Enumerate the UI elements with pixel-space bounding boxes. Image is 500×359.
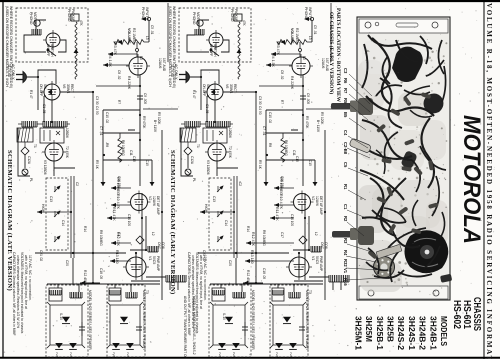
IF transformer T2 (late)	[40, 128, 64, 143]
svg-text:3H25B-1: 3H25B-1	[375, 316, 385, 350]
cathode resistor arrow R12 (early)	[246, 242, 294, 244]
svg-text:R11 47K: R11 47K	[275, 207, 279, 221]
svg-text:with a VTVM, no signal input,: with a VTVM, no signal input, line at	[24, 255, 28, 309]
svg-text:R4 220K: R4 220K	[127, 76, 131, 90]
svg-text:T2 455K: T2 455K	[228, 146, 232, 159]
svg-text:3H25M-1: 3H25M-1	[353, 316, 363, 350]
capacitor bars (late)	[79, 326, 85, 328]
det/avc tube V2 (late)	[131, 194, 148, 211]
motor coil L1 (early)	[195, 29, 204, 35]
dashed enclosure: output model 3H25 (early)	[209, 285, 251, 357]
field coil (late)	[70, 292, 82, 298]
svg-text:V3 12BD6: V3 12BD6	[43, 160, 47, 175]
photo apron slot	[396, 23, 418, 27]
rectifier SE6 pair (early)	[275, 343, 283, 349]
output transformer T3 (early)	[212, 288, 225, 301]
phono motor M1 (late)	[34, 20, 40, 26]
plate load line R4 long (early)	[259, 85, 281, 87]
svg-text:117V 60: 117V 60	[7, 64, 11, 77]
svg-text:PICKUP: PICKUP	[71, 9, 75, 22]
rectifier SE1 (late)	[62, 317, 70, 324]
svg-text:S-10: S-10	[222, 313, 226, 320]
svg-text:47K: 47K	[242, 20, 246, 27]
photo right-edge wires	[442, 66, 446, 102]
svg-text:AC ONLY: AC ONLY	[11, 64, 15, 80]
dashed enclosure: output model 3H24 (early)	[270, 285, 308, 357]
wire: det plate (late)	[131, 193, 160, 281]
dashed enclosure: record changer unit (early)	[179, 8, 251, 62]
svg-text:PARTS LOCATION - BOTTOM VIEW: PARTS LOCATION - BOTTOM VIEW	[335, 8, 341, 103]
svg-text:SWITCH: SWITCH	[50, 44, 54, 57]
svg-text:7+8: 7+8	[69, 352, 73, 357]
svg-text:C10 .02: C10 .02	[105, 112, 109, 123]
svg-text:C18 .05: C18 .05	[262, 268, 266, 279]
svg-text:PHONO: PHONO	[141, 7, 145, 20]
svg-text:12BD6: 12BD6	[65, 128, 69, 138]
photo electrolytic capacitor cylinder	[349, 138, 371, 153]
photo speaker magnet V2 dark mass	[405, 230, 449, 273]
svg-text:L2: L2	[314, 232, 318, 236]
field coil (early)	[233, 292, 245, 298]
wire: jack to volume (late)	[148, 21, 150, 42]
svg-text:V2: V2	[148, 196, 152, 200]
AC plug P1 (late)	[23, 72, 27, 83]
svg-text:T1: T1	[33, 144, 37, 148]
svg-text:R3 47K: R3 47K	[276, 43, 280, 56]
svg-text:R6: R6	[343, 78, 348, 84]
svg-text:AC ONLY: AC ONLY	[174, 64, 178, 80]
svg-text:C16 220: C16 220	[117, 176, 121, 188]
svg-text:OF CHASSIS (EARLY VERSION): OF CHASSIS (EARLY VERSION)	[328, 12, 335, 94]
svg-text:R5: R5	[343, 98, 348, 104]
svg-text:R4 1.5K: R4 1.5K	[271, 54, 275, 68]
svg-text:C14: C14	[61, 220, 65, 226]
svg-text:VOLUME: VOLUME	[290, 28, 294, 44]
svg-text:50C5: 50C5	[315, 256, 319, 264]
RC coupling network box (early)	[266, 99, 315, 186]
svg-text:MODELS: MODELS	[439, 316, 449, 346]
output transformer T4 (late)	[109, 288, 121, 301]
svg-text:C20: C20	[228, 260, 232, 266]
pilot lamp (early)	[185, 169, 191, 175]
svg-text:HS-602: HS-602	[451, 300, 463, 329]
heater chain combs (late)	[22, 121, 37, 127]
oscillator coil L2 (early)	[311, 246, 321, 252]
svg-text:R12 45K: R12 45K	[246, 270, 250, 284]
rectifier tube V6 35W4 (early)	[207, 84, 223, 100]
svg-text:R2: R2	[302, 56, 306, 60]
svg-text:C8 .02: C8 .02	[280, 70, 284, 80]
rectifier SE4 (early)	[283, 317, 291, 324]
svg-text:R1 47: R1 47	[29, 90, 33, 99]
svg-text:PWR AMP: PWR AMP	[319, 256, 323, 271]
svg-text:C14 100: C14 100	[127, 214, 131, 226]
photo coil dark bit	[400, 150, 418, 170]
svg-text:SCHEMATIC DIAGRAM (EARLY VERSI: SCHEMATIC DIAGRAM (EARLY VERSION)	[169, 150, 176, 295]
svg-text:B+ 110V: B+ 110V	[316, 120, 320, 133]
svg-text:T2 455K: T2 455K	[65, 146, 69, 159]
svg-text:C12A: C12A	[190, 156, 194, 165]
photo speckle grain	[387, 74, 389, 76]
capacitor bars 2 (late)	[136, 326, 142, 328]
svg-text:RECT: RECT	[233, 84, 237, 93]
svg-text:117V AC. NC = no connection.: 117V AC. NC = no connection.	[28, 255, 32, 301]
svg-text:R5 1K: R5 1K	[258, 160, 262, 170]
page border left	[2, 1, 4, 358]
svg-text:7+8: 7+8	[275, 352, 279, 357]
svg-text:R12 45K: R12 45K	[83, 270, 87, 284]
svg-text:C11: C11	[129, 150, 133, 156]
divider line right of early version	[330, 3, 332, 62]
grid resistor arrow R3 (late)	[108, 53, 137, 55]
junction (late)	[136, 49, 139, 52]
rule before title column	[483, 0, 485, 359]
wire: detector (early)	[217, 161, 238, 176]
power transformer T1 (late)	[17, 128, 33, 142]
wire: detector (late)	[54, 161, 75, 176]
svg-text:7+8: 7+8	[126, 352, 130, 357]
IF amp tube V4 (late)	[45, 143, 63, 161]
svg-text:PHONO: PHONO	[230, 9, 234, 22]
svg-text:3H25M: 3H25M	[364, 316, 374, 342]
svg-text:MODEL 3H25 SERIES USES SPEAKER: MODEL 3H25 SERIES USES SPEAKER	[251, 290, 255, 350]
svg-text:ON-OFF: ON-OFF	[46, 44, 50, 56]
wire: left rail (late)	[18, 128, 30, 176]
trimmer capacitor C12 (late)	[21, 147, 29, 155]
rectifier SE3 pair (late)	[55, 343, 63, 349]
speaker frame 2 (late)	[107, 302, 143, 348]
AF amp tube V4 (early)	[292, 57, 310, 75]
capacitor bars 2 (early)	[299, 326, 305, 328]
capacitor bars (early)	[242, 326, 248, 328]
svg-text:unless otherwise specified. Re: unless otherwise specified. Resistors 1/…	[16, 255, 20, 328]
phono input jack (early)	[304, 17, 309, 21]
wire: det plate (early)	[294, 193, 323, 281]
output transformer T4 (early)	[272, 288, 284, 301]
speaker frame (early)	[210, 302, 248, 348]
cathode arrow R4 (early)	[266, 64, 292, 66]
svg-text:AND OUTPUT TRANSFORMER PART OF: AND OUTPUT TRANSFORMER PART OF	[183, 296, 187, 359]
svg-text:T3: T3	[308, 290, 312, 294]
scan noise speckle	[131, 244, 132, 245]
power amp tube V1 (early)	[289, 257, 309, 277]
svg-text:1ST AUD: 1ST AUD	[162, 58, 166, 72]
svg-text:12BD6: 12BD6	[228, 128, 232, 138]
svg-text:R2 1MEG: R2 1MEG	[132, 28, 136, 43]
photo front apron holes	[368, 290, 374, 296]
coupling coil (late)	[126, 292, 137, 298]
svg-text:VOLUME R-18, MOST-OFTEN-NEEDED: VOLUME R-18, MOST-OFTEN-NEEDED 1958 RADI…	[485, 3, 493, 359]
cathode arrow R4 (late)	[103, 64, 129, 66]
svg-text:B5: B5	[343, 112, 348, 118]
IF amp tube V4 (early)	[208, 143, 226, 161]
wire: AVC with arrow (late)	[37, 211, 71, 213]
IF transformer T2 (early)	[203, 128, 227, 143]
rectifier SE3 pair (early)	[218, 343, 226, 349]
grid return arrow R10 (early)	[274, 204, 294, 206]
det/avc tube V2 (early)	[294, 194, 311, 211]
dashed enclosure: record changer unit (late)	[16, 8, 88, 62]
svg-text:R2: R2	[139, 56, 143, 60]
divider line between versions	[167, 3, 169, 62]
svg-text:R4: R4	[343, 250, 348, 256]
svg-text:C8 .02: C8 .02	[117, 70, 121, 80]
svg-text:DET AF AMP: DET AF AMP	[156, 196, 160, 215]
diode load arrow R11 (late)	[107, 217, 131, 219]
cap C10 ticks (late)	[128, 130, 135, 133]
B+ rail wire (late)	[161, 130, 163, 300]
svg-text:INPUT: INPUT	[308, 7, 312, 17]
svg-text:C14: C14	[224, 220, 228, 226]
svg-text:V1: V1	[148, 256, 152, 260]
svg-text:DET AF AMP: DET AF AMP	[319, 196, 323, 215]
svg-text:PL: PL	[29, 178, 33, 182]
tube V6 motor switch tube (late)	[46, 33, 60, 47]
photo power transformer dark mass	[392, 47, 423, 82]
svg-text:C3 30: C3 30	[95, 96, 99, 105]
svg-text:R5 470K: R5 470K	[142, 116, 146, 129]
diode load arrow R11 (early)	[270, 217, 294, 219]
svg-text:C17: C17	[280, 232, 284, 238]
volume pot R11 (early)	[217, 186, 223, 192]
svg-text:R5 470K: R5 470K	[305, 116, 309, 129]
shielded cable (early)	[233, 176, 235, 258]
svg-text:R8: R8	[268, 143, 272, 147]
svg-text:MODEL 3H25 SERIES USES SPEAKER: MODEL 3H25 SERIES USES SPEAKER	[88, 290, 92, 350]
RC coupling network box (late)	[103, 99, 152, 186]
svg-text:VOLTAGES: Measured from point: VOLTAGES: Measured from point indicated …	[20, 252, 24, 334]
svg-text:V2: V2	[311, 196, 315, 200]
svg-text:C1 .05: C1 .05	[42, 104, 46, 114]
svg-text:MODEL 3H24 SERIES USES SPEAKER: MODEL 3H24 SERIES USES SPEAKER	[142, 290, 146, 350]
svg-text:12AV6: 12AV6	[315, 196, 319, 206]
svg-text:117V AC. NC = no connection.: 117V AC. NC = no connection.	[203, 255, 207, 301]
svg-text:C16 220: C16 220	[280, 176, 284, 188]
grid return arrow R10 (late)	[111, 204, 131, 206]
phono pickup arm (late)	[71, 14, 79, 21]
photo wiring harness curves	[368, 35, 432, 49]
photo tube socket V1	[374, 257, 395, 278]
osc coil (early)	[293, 216, 309, 250]
oscillator coil L2 (late)	[148, 246, 158, 252]
svg-text:R2: R2	[343, 216, 348, 222]
svg-text:R6 10MEG: R6 10MEG	[121, 140, 125, 156]
AC plug P1 (early)	[186, 72, 190, 83]
svg-text:C15: C15	[295, 156, 299, 162]
dashed enclosure: volume control (late)	[46, 178, 68, 250]
wire: left rail (early)	[181, 128, 193, 176]
photo gray mottle patches	[358, 60, 384, 110]
svg-text:PL: PL	[192, 178, 196, 182]
svg-text:3H25B: 3H25B	[386, 316, 396, 342]
coupling cap C9 (early)	[300, 95, 306, 97]
volume control R2 zigzag (early)	[277, 40, 312, 45]
svg-text:R1: R1	[343, 184, 348, 190]
svg-text:117V 60: 117V 60	[170, 64, 174, 77]
svg-text:47K: 47K	[79, 20, 83, 27]
svg-text:V1: V1	[343, 268, 348, 274]
svg-text:3H24B-2: 3H24B-2	[418, 316, 428, 350]
svg-text:SWITCH: SWITCH	[213, 44, 217, 57]
svg-text:C9 .005: C9 .005	[306, 93, 310, 104]
svg-text:C4: C4	[343, 130, 348, 136]
svg-text:R1 47: R1 47	[192, 90, 196, 99]
output transformer T3 (late)	[49, 288, 62, 301]
phono motor M1 (early)	[197, 20, 203, 26]
svg-text:T1: T1	[196, 144, 200, 148]
svg-text:R13 180: R13 180	[250, 250, 254, 264]
wire: plate to next stage (late)	[143, 108, 178, 110]
ground arrows (late)	[101, 182, 106, 186]
speaker frame 2 (early)	[270, 302, 306, 348]
cathode resistor arrow R12 (late)	[111, 242, 131, 244]
svg-text:PICKUP: PICKUP	[234, 9, 238, 22]
svg-text:C5 .01: C5 .01	[313, 25, 317, 35]
svg-text:R11 47K: R11 47K	[112, 207, 116, 221]
svg-text:C13: C13	[49, 196, 53, 202]
svg-text:12AU6: 12AU6	[158, 58, 162, 68]
photo chassis front apron	[359, 286, 448, 299]
on-off switch S1 (late)	[48, 50, 56, 56]
svg-text:S-10: S-10	[59, 313, 63, 320]
grid arrow R9 (early)	[274, 187, 294, 189]
vertical resistor R6 (late)	[118, 133, 122, 162]
svg-text:R5 1K: R5 1K	[95, 160, 99, 170]
trimmer capacitor C12 (early)	[184, 147, 192, 155]
photo leader lines left labels	[349, 74, 372, 96]
svg-text:3H24S-1: 3H24S-1	[407, 316, 417, 350]
dashed enclosure: volume control (early)	[209, 178, 231, 250]
svg-text:OSC: OSC	[157, 242, 161, 250]
svg-text:3H24B-1: 3H24B-1	[428, 316, 438, 350]
svg-text:with a VTVM, no signal input,: with a VTVM, no signal input, line at	[199, 255, 203, 309]
photo: chassis bottom view frame	[357, 17, 450, 300]
svg-text:INPUT: INPUT	[145, 7, 149, 17]
svg-text:CAPACITORS: Decimal values in: CAPACITORS: Decimal values in MF, all ot…	[12, 252, 16, 336]
svg-text:R32: R32	[343, 259, 348, 267]
svg-text:HIGH: HIGH	[41, 204, 45, 213]
svg-text:B+ 110V: B+ 110V	[153, 120, 157, 133]
screen arrow R13 (late)	[110, 260, 131, 262]
rectifier SE6 pair (late)	[112, 343, 120, 349]
AF amp tube V4 (late)	[129, 57, 147, 75]
wire: jack to volume (early)	[311, 21, 313, 42]
svg-text:C20: C20	[65, 260, 69, 266]
coupling coil (early)	[289, 292, 300, 298]
photo volume control lower	[358, 226, 374, 245]
plate load R4 (late)	[118, 85, 140, 87]
switch pot (early)	[217, 236, 223, 242]
rectifier tube V6 35W4 (late)	[44, 84, 60, 100]
svg-text:50C5: 50C5	[152, 256, 156, 264]
svg-text:C21 .02: C21 .02	[39, 250, 43, 261]
svg-text:R14: R14	[246, 226, 250, 232]
photo terminal strip	[376, 244, 402, 258]
shielded cable (late)	[70, 176, 72, 258]
svg-text:C7 .01: C7 .01	[262, 126, 266, 136]
wire: motor loop (early)	[187, 20, 229, 52]
plate load line R4 long (late)	[96, 85, 118, 87]
svg-text:VOLUME: VOLUME	[127, 28, 131, 44]
tuning capacitor (late)	[136, 236, 144, 244]
B+ rail wire (early)	[324, 130, 326, 300]
vertical resistor R6 (early)	[281, 133, 285, 162]
svg-text:MODEL 3H24 SERIES USES SPEAKER: MODEL 3H24 SERIES USES SPEAKER	[305, 290, 309, 350]
photo small components scatter	[390, 108, 401, 116]
svg-text:C5 .01: C5 .01	[150, 25, 154, 35]
photo control shaft upper	[331, 103, 358, 110]
svg-text:R8 10MEG: R8 10MEG	[262, 230, 266, 246]
svg-text:C7 .01: C7 .01	[99, 126, 103, 136]
svg-text:R13 180: R13 180	[115, 250, 119, 264]
svg-text:3H24S-2: 3H24S-2	[396, 316, 406, 350]
motor coil L1 (late)	[32, 29, 41, 35]
svg-text:C2-B8: C2-B8	[343, 142, 348, 155]
svg-text:SCHEMATIC DIAGRAM (LATE VERSIO: SCHEMATIC DIAGRAM (LATE VERSION)	[6, 150, 13, 291]
svg-text:7+8: 7+8	[218, 352, 222, 357]
svg-text:C3: C3	[343, 68, 348, 74]
rectifier SE4 (late)	[120, 317, 128, 324]
junction (early)	[299, 49, 302, 52]
tuning capacitor (early)	[299, 236, 307, 244]
wire: B+ from rectifier (late)	[44, 92, 93, 212]
svg-text:PHONO: PHONO	[67, 9, 71, 22]
wire: AVC with arrow (early)	[200, 211, 234, 213]
phono input jack (late)	[141, 17, 146, 21]
svg-text:C1 .05: C1 .05	[205, 104, 209, 114]
svg-text:PWR AMP: PWR AMP	[156, 256, 160, 271]
svg-text:PHONO: PHONO	[304, 7, 308, 20]
svg-text:USED ON MODELS 3H24S-1, 3H24S-: USED ON MODELS 3H24S-1, 3H24S-2	[192, 296, 196, 355]
phono pickup arm (early)	[234, 14, 242, 21]
ground arrows (early)	[264, 182, 269, 186]
wire: motor loop (late)	[24, 20, 66, 52]
output transformer primary comb (late)	[166, 275, 186, 282]
svg-text:PHONO: PHONO	[192, 12, 196, 25]
wire: plate to next stage (early)	[306, 108, 341, 110]
grid resistor arrow R3 (early)	[271, 53, 300, 55]
svg-text:MOTOROLA: MOTOROLA	[458, 115, 485, 244]
photo control shaft lower	[332, 231, 358, 238]
rectifier SE1 (early)	[225, 317, 233, 324]
photo apron holes	[365, 22, 371, 28]
photo phono input connector	[440, 274, 452, 283]
svg-text:C4 50: C4 50	[258, 106, 262, 115]
wire: AC line (early)	[190, 70, 219, 110]
svg-text:R14: R14	[83, 226, 87, 232]
svg-text:R12 47K: R12 47K	[251, 232, 255, 247]
svg-text:7+8: 7+8	[55, 352, 59, 357]
svg-text:R3 47K: R3 47K	[113, 43, 117, 56]
photo IF can dark blob	[424, 94, 444, 114]
cap C10 ticks (early)	[291, 130, 298, 133]
photo chassis rear apron	[359, 19, 448, 33]
tube V6 motor switch tube (early)	[209, 33, 223, 47]
svg-text:ON-OFF: ON-OFF	[202, 84, 206, 96]
dashed enclosure: output model 3H25 (late)	[46, 285, 88, 357]
junction dots (late)	[37, 76, 39, 78]
plate load R4 (early)	[281, 85, 303, 87]
svg-text:R16: R16	[343, 278, 348, 286]
svg-text:C10 .02: C10 .02	[268, 112, 272, 123]
svg-text:V6: V6	[62, 84, 66, 88]
pilot lamp (late)	[22, 169, 28, 175]
dashed enclosure: output model 3H24 (late)	[107, 285, 145, 357]
svg-text:C5: C5	[343, 162, 348, 168]
svg-text:L3: L3	[145, 36, 149, 40]
heater chain combs (early)	[185, 121, 200, 127]
svg-text:R7: R7	[343, 88, 348, 94]
